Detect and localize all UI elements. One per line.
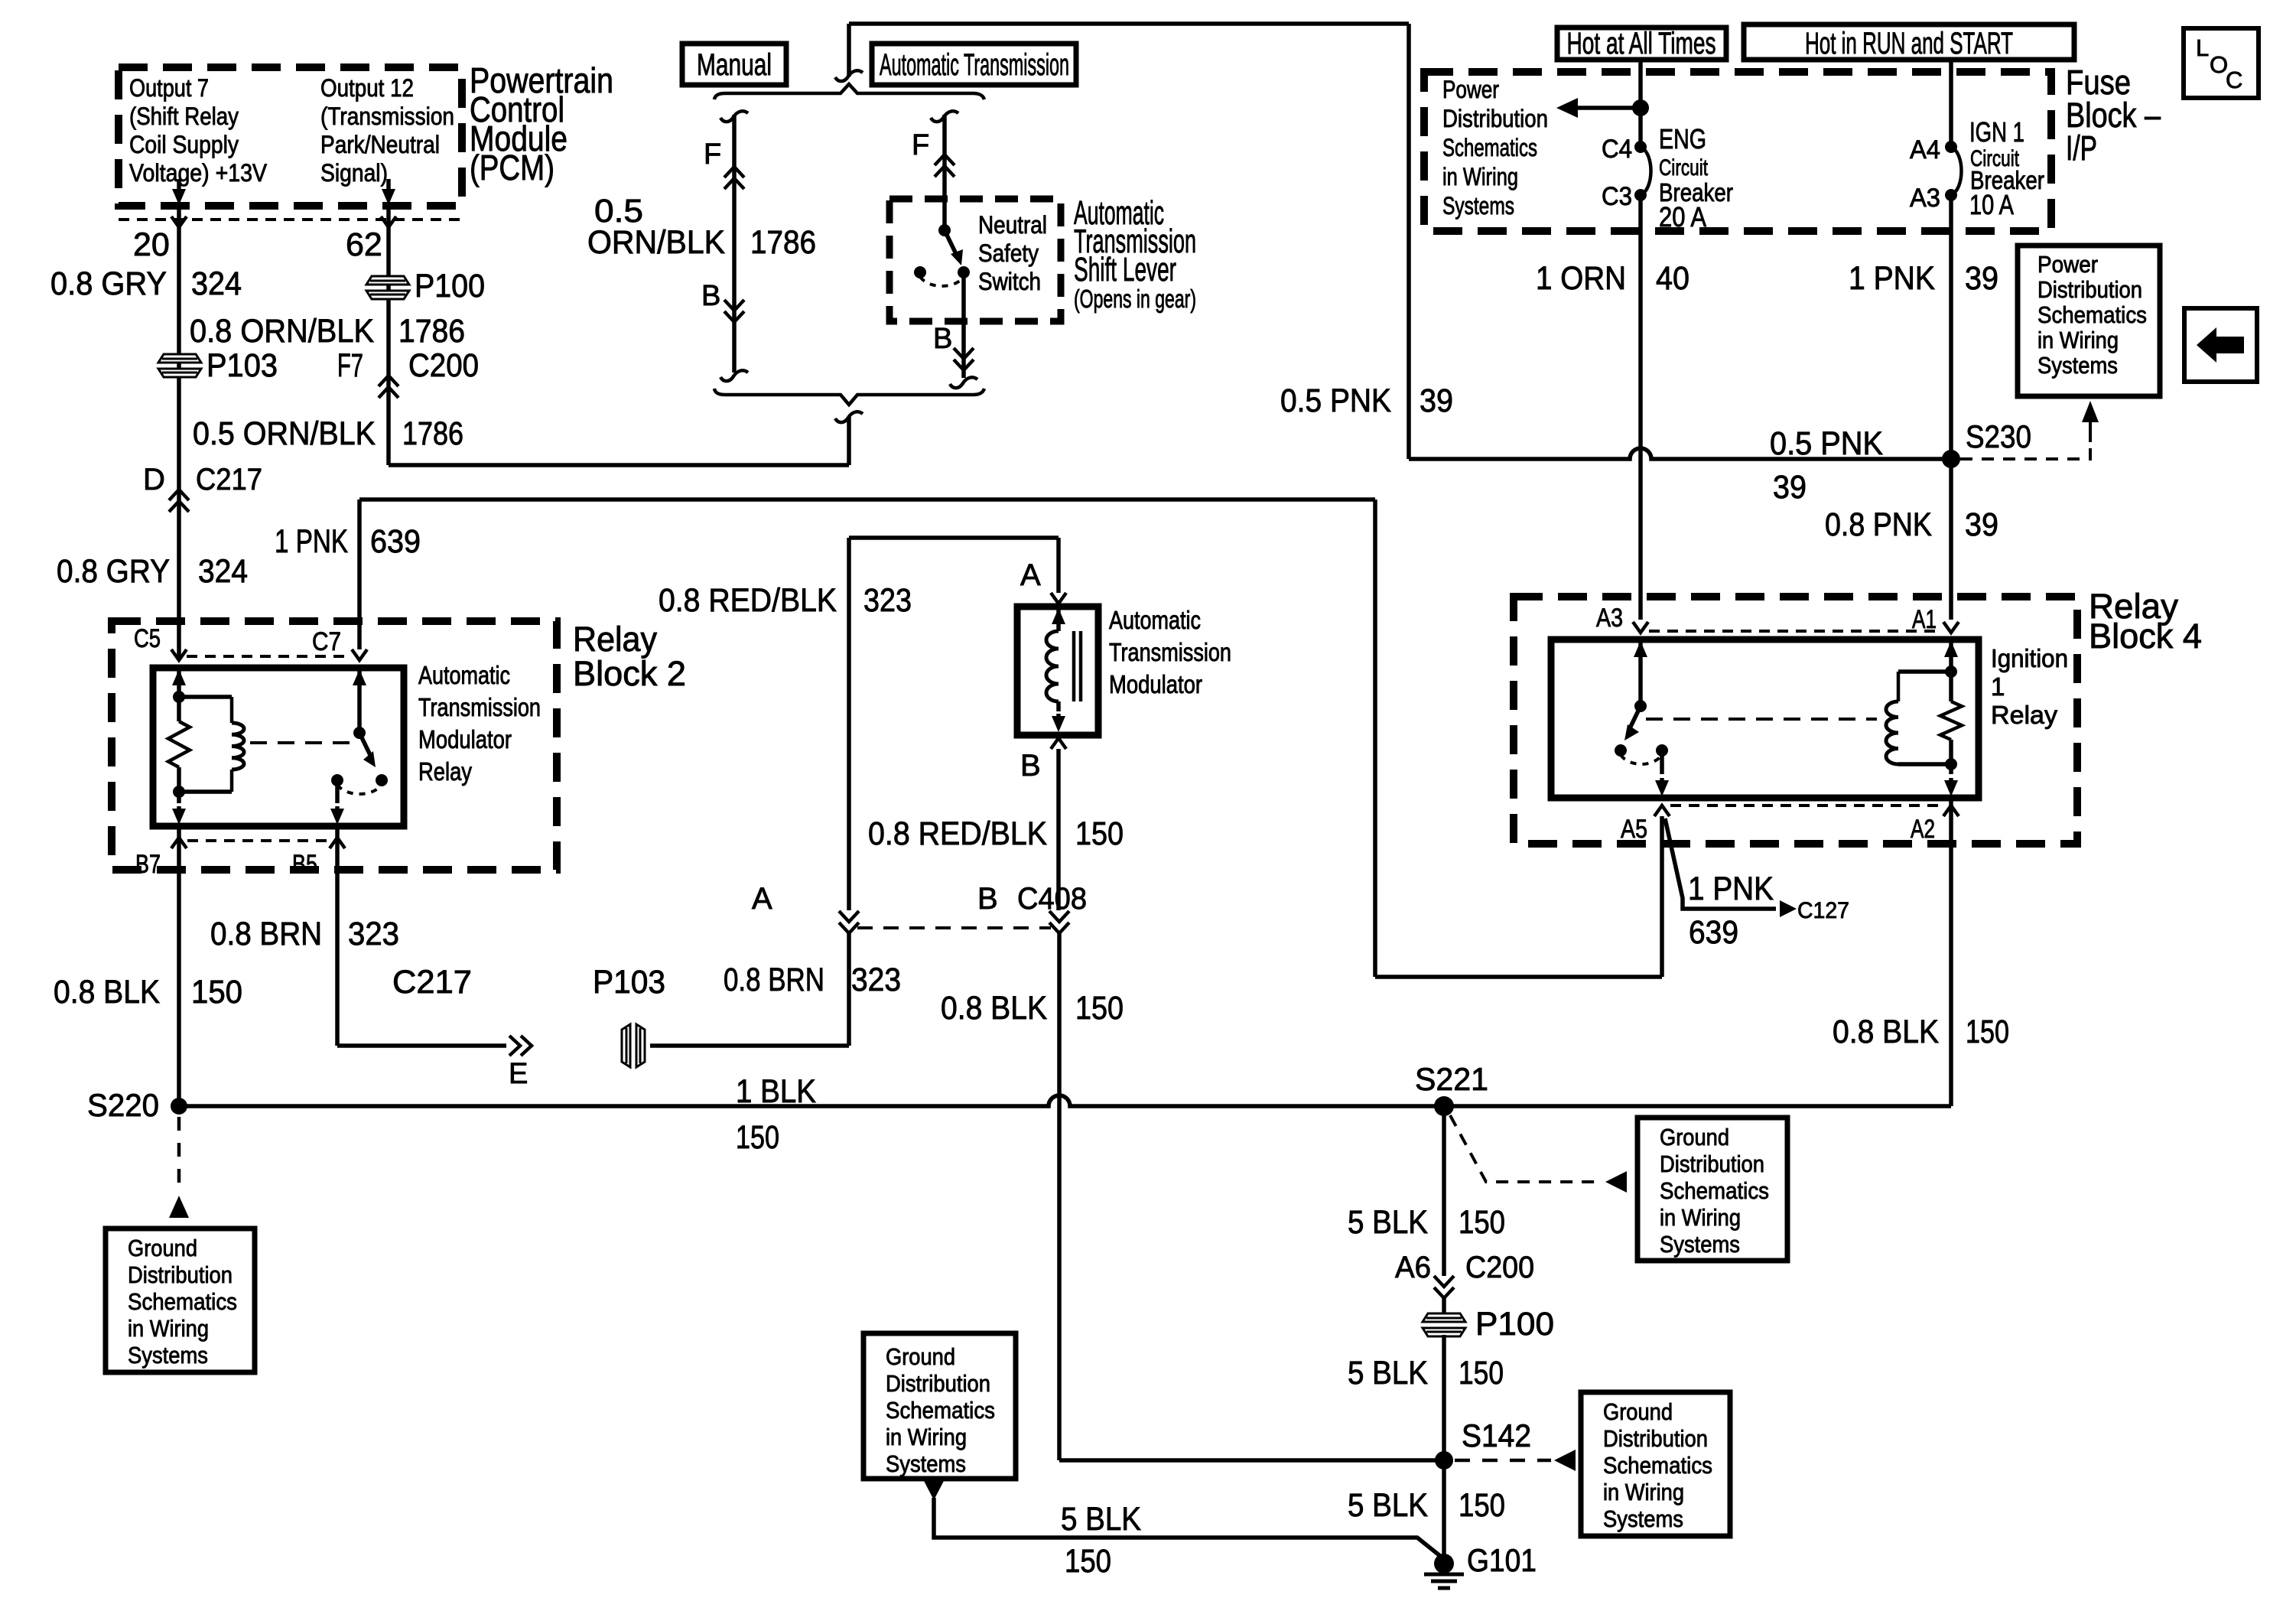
Fuse Block dashed box (1424, 72, 2051, 231)
svg-text:(Shift Relay: (Shift Relay (129, 103, 239, 130)
wire 1 PNK 639 C7 riser (357, 500, 362, 649)
connector C200 pin F7 chevron (379, 376, 398, 398)
svg-text:P103: P103 (207, 347, 278, 384)
splice S221 dot (1434, 1096, 1454, 1116)
relay4 switch right contact dot (1656, 744, 1668, 757)
wire P100 to S142 (1442, 1335, 1446, 1460)
svg-text:S221: S221 (1415, 1061, 1488, 1097)
svg-text:Voltage) +13V: Voltage) +13V (129, 159, 268, 187)
NSS switch blade with arrow (945, 230, 957, 255)
splice S142 dot (1435, 1451, 1453, 1469)
wire 0.5 PNK horizontal to S230 with hop (1409, 448, 1951, 459)
svg-text:C7: C7 (312, 627, 341, 656)
svg-text:C5: C5 (134, 624, 161, 653)
svg-text:Relay: Relay (573, 620, 657, 659)
svg-text:IGN 1: IGN 1 (1969, 116, 2024, 148)
NSS dashed box (889, 199, 1061, 321)
wire 1 PNK 639 bottom horizontal (1375, 975, 1662, 979)
svg-text:S230: S230 (1966, 418, 2031, 454)
relay4 coil (1897, 672, 1901, 701)
Automatic Transmission box (872, 44, 1076, 85)
relay4 pin A1 fork (1943, 622, 1959, 633)
wire 1 PNK 639 up to A5 (1660, 816, 1664, 977)
svg-text:323: 323 (851, 962, 901, 998)
svg-text:39: 39 (1965, 506, 1998, 543)
svg-text:I/P: I/P (2066, 129, 2097, 168)
svg-text:B: B (701, 280, 720, 312)
svg-text:Systems: Systems (1442, 192, 1514, 220)
wire ATM B down to C408 (1056, 749, 1061, 910)
wire B7 to S220 (177, 826, 181, 1106)
svg-text:C: C (2226, 67, 2242, 93)
svg-text:5 BLK: 5 BLK (1348, 1355, 1428, 1391)
svg-text:Schematics: Schematics (1660, 1177, 1769, 1204)
svg-text:Systems: Systems (2037, 352, 2118, 379)
relay2 resistor (168, 721, 190, 767)
relay2 switch left contact dot (331, 774, 343, 786)
Relay Block 4 dashed box (1514, 597, 2077, 844)
svg-text:Distribution: Distribution (128, 1261, 233, 1288)
S230 reference arrow up (2089, 421, 2092, 442)
svg-text:150: 150 (191, 974, 242, 1011)
NSS switch pivot dot (938, 224, 951, 236)
svg-text:1 PNK: 1 PNK (1849, 260, 1935, 297)
LOC box (2184, 28, 2259, 98)
ATM pin A fork (1051, 593, 1066, 604)
NSS switch left contact dot (914, 266, 926, 278)
svg-text:0.5 ORN/BLK: 0.5 ORN/BLK (193, 415, 376, 452)
squiggle top center (847, 24, 851, 76)
svg-text:Schematics: Schematics (886, 1397, 995, 1424)
IGN circuit breaker A3 dot (1945, 189, 1957, 201)
svg-text:0.8 GRY: 0.8 GRY (57, 553, 170, 590)
svg-text:1 PNK: 1 PNK (275, 523, 348, 560)
svg-text:639: 639 (1689, 914, 1738, 951)
relay2 actuator dashed line (250, 741, 353, 744)
wire ORN/BLK horizontal to options brace (389, 463, 849, 467)
connector P100 pellet (366, 276, 409, 299)
svg-text:G101: G101 (1467, 1542, 1537, 1578)
PCM dashed box (119, 67, 462, 206)
manual col F chevron (724, 167, 744, 189)
svg-text:B: B (977, 882, 998, 916)
svg-text:B: B (933, 323, 952, 355)
svg-text:A4: A4 (1910, 135, 1940, 164)
wire ENG breaker vertical upper (1638, 60, 1643, 147)
wire ORN/BLK from PCM pin 62 down (386, 207, 391, 465)
svg-text:Hot in RUN and START: Hot in RUN and START (1805, 27, 2013, 60)
svg-text:A6: A6 (1395, 1251, 1431, 1284)
svg-text:150: 150 (1966, 1014, 2009, 1050)
wire top from options brace to fuse area (849, 21, 1409, 26)
ATM solenoid coil (1046, 631, 1059, 701)
NSS switch dashed arc (920, 277, 964, 286)
svg-text:A1: A1 (1912, 605, 1937, 634)
relay4 pin A3 fork (1633, 622, 1648, 633)
svg-text:5 BLK: 5 BLK (1061, 1501, 1141, 1538)
svg-text:C4: C4 (1602, 135, 1632, 164)
svg-text:Transmission: Transmission (418, 693, 541, 721)
svg-text:1 PNK: 1 PNK (1688, 871, 1774, 907)
C408 pin A chevrons (839, 911, 859, 933)
manual column bottom squiggle (720, 370, 748, 381)
PCM pin 20 fork (171, 216, 187, 227)
PCM pin 62 fork (381, 216, 396, 227)
svg-text:Relay: Relay (1991, 701, 2058, 729)
Automatic Transmission Modulator box (1017, 607, 1098, 735)
svg-text:Distribution: Distribution (886, 1370, 990, 1397)
A5 stub to C127 (1665, 819, 1776, 909)
NSS switch right contact dot (958, 266, 970, 278)
relay2 pin C5 fork (171, 649, 187, 660)
svg-text:Power: Power (1442, 76, 1499, 103)
relay4 coil branch bottom (1898, 762, 1951, 766)
ATM Relay solid box (153, 668, 404, 826)
svg-text:10 A: 10 A (1969, 189, 2014, 220)
svg-text:Output 7: Output 7 (129, 74, 209, 102)
relay2 switch blade (359, 733, 370, 755)
relay4 pin A5 fork (1654, 805, 1670, 816)
wire C408 B down (1057, 933, 1062, 1460)
relay4 bottom pin dashed line (1670, 804, 1942, 807)
relay4 resistor exit wire (1949, 740, 1953, 774)
ATM coil entry arrow (1056, 608, 1061, 617)
svg-text:Systems: Systems (886, 1450, 966, 1477)
svg-text:1 BLK: 1 BLK (736, 1073, 816, 1110)
wire RED/BLK horizontal (849, 535, 1059, 540)
relay2 switch entry arrow (357, 669, 362, 679)
NSS column wire lower (961, 272, 966, 378)
relay4 actuator dashed line (1646, 718, 1877, 721)
svg-text:C3: C3 (1602, 182, 1632, 211)
svg-text:A: A (1020, 558, 1041, 592)
wire C408-B leg to S142 (1059, 1458, 1444, 1463)
svg-text:Switch: Switch (978, 268, 1041, 295)
ENG circuit breaker C3 dot (1634, 189, 1647, 201)
svg-text:0.8 BLK: 0.8 BLK (1833, 1014, 1939, 1050)
svg-text:ORN/BLK: ORN/BLK (587, 224, 725, 261)
svg-text:Automatic Transmission: Automatic Transmission (880, 48, 1069, 82)
svg-text:150: 150 (1075, 815, 1124, 852)
relay4 coil bottom dot (1945, 758, 1957, 770)
connector C200 pin A6 chevron (1434, 1276, 1454, 1298)
svg-text:Neutral: Neutral (978, 211, 1047, 239)
options brace bottom (714, 389, 984, 405)
svg-text:P100: P100 (1475, 1306, 1554, 1342)
S220 dashed reference (177, 1117, 181, 1187)
svg-text:F: F (704, 138, 721, 171)
relay4 resistor entry arrow (1949, 641, 1953, 650)
relay4 switch pivot dot (1634, 700, 1647, 712)
svg-text:B7: B7 (135, 850, 161, 879)
svg-text:Systems: Systems (1603, 1505, 1683, 1532)
manual col B chevron (724, 300, 744, 322)
wire BRN horizontal 2 (650, 1043, 849, 1048)
wire S142 to G101 (1442, 1460, 1446, 1557)
svg-text:0.8 BLK: 0.8 BLK (941, 990, 1047, 1027)
Power Distribution Schematics box right (2018, 246, 2160, 396)
svg-text:Transmission: Transmission (1109, 638, 1231, 666)
Ignition 1 Relay solid box (1551, 640, 1979, 798)
svg-text:Block 4: Block 4 (2089, 617, 2202, 656)
svg-text:Ignition: Ignition (1991, 644, 2068, 672)
wire RED/BLK down to ATM A (1056, 538, 1061, 593)
relay4 coil branch top (1898, 669, 1951, 674)
S220 reference triangle (169, 1196, 189, 1218)
wire C200 to P100 (1442, 1298, 1446, 1315)
svg-text:1786: 1786 (402, 415, 463, 452)
NSS column bottom squiggle (950, 377, 977, 388)
PCM connector dashed pin line (119, 218, 462, 221)
Ground Distribution box S142 (1581, 1392, 1730, 1536)
wire 1 PNK 639 right riser (1373, 500, 1377, 977)
svg-text:S142: S142 (1462, 1417, 1531, 1453)
svg-text:Circuit: Circuit (1659, 155, 1708, 181)
left arrow legend box (2184, 308, 2257, 382)
left arrow legend glyph (2197, 327, 2244, 363)
ENG branch junction dot (1632, 99, 1649, 116)
options brace top (714, 84, 984, 99)
svg-text:Schematics: Schematics (2037, 301, 2147, 328)
S142 dashed reference (1455, 1459, 1551, 1463)
svg-text:Automatic: Automatic (418, 661, 510, 689)
svg-text:Manual: Manual (697, 48, 772, 82)
svg-text:39: 39 (1420, 382, 1453, 419)
svg-text:F7: F7 (337, 347, 363, 384)
relay2 coil bottom dot (173, 786, 185, 798)
svg-text:Block 2: Block 2 (573, 654, 686, 693)
svg-text:in Wiring: in Wiring (886, 1424, 967, 1450)
svg-text:Systems: Systems (1660, 1231, 1740, 1258)
svg-text:ENG: ENG (1659, 123, 1706, 155)
ATM core bars (1072, 631, 1076, 701)
svg-text:Coil Supply: Coil Supply (129, 131, 239, 158)
connector P103 pellet (158, 354, 201, 377)
S221 reference arrow (1605, 1171, 1627, 1193)
svg-text:1: 1 (1991, 672, 2005, 701)
relay2 resistor entry arrow (177, 669, 181, 679)
svg-text:A3: A3 (1596, 604, 1623, 633)
wire bottom box to G101 (934, 1498, 1444, 1559)
svg-text:0.8 PNK: 0.8 PNK (1825, 506, 1932, 543)
svg-text:Hot at All Times: Hot at All Times (1567, 27, 1716, 60)
svg-text:5 BLK: 5 BLK (1348, 1487, 1428, 1524)
svg-text:150: 150 (1459, 1355, 1504, 1391)
svg-text:0.5 PNK: 0.5 PNK (1770, 425, 1883, 462)
relay2 switch exit wire (335, 780, 340, 803)
ATM pin B fork (1051, 738, 1066, 749)
relay4 top pin dashed line (1649, 630, 1942, 633)
svg-text:C217: C217 (196, 463, 262, 496)
wire IGN breaker vertical lower (1949, 195, 1953, 620)
bottom box triangle (924, 1481, 944, 1500)
svg-text:0.8 RED/BLK: 0.8 RED/BLK (868, 815, 1047, 852)
svg-text:0.8 ORN/BLK: 0.8 ORN/BLK (190, 313, 374, 350)
svg-text:(PCM): (PCM) (470, 148, 554, 187)
svg-text:5 BLK: 5 BLK (1348, 1204, 1428, 1241)
svg-text:E: E (509, 1058, 528, 1090)
relay4 switch blade (1630, 706, 1641, 728)
S142 reference arrow (1554, 1450, 1576, 1471)
svg-text:(Transmission: (Transmission (320, 103, 454, 130)
ATM coil exit arrow (1056, 701, 1061, 711)
manual column wire (732, 115, 737, 373)
relay2 switch dashed arc (337, 785, 382, 794)
relay2 coil (230, 697, 234, 723)
wire S221 down to C200 (1442, 1106, 1446, 1276)
svg-text:C200: C200 (408, 347, 479, 384)
svg-text:in Wiring: in Wiring (1603, 1479, 1684, 1505)
Hot at All Times box (1557, 28, 1726, 60)
svg-text:Distribution: Distribution (2037, 276, 2142, 303)
wire BRN riser to C408 A (847, 933, 851, 1046)
svg-text:150: 150 (736, 1119, 779, 1156)
svg-text:Power: Power (2037, 251, 2098, 278)
svg-text:Modulator: Modulator (1109, 670, 1202, 698)
svg-text:20: 20 (133, 226, 170, 263)
svg-text:Ground: Ground (886, 1343, 955, 1370)
Ground Distribution box S221 (1637, 1118, 1787, 1261)
splice S230 dot (1942, 450, 1960, 468)
svg-text:0.8 RED/BLK: 0.8 RED/BLK (659, 582, 837, 619)
relay4 pin A2 fork (1943, 805, 1959, 816)
svg-text:C217: C217 (392, 964, 472, 1001)
wire IGN breaker vertical upper (1949, 60, 1953, 147)
svg-text:150: 150 (1459, 1204, 1505, 1241)
svg-text:0.8 GRY: 0.8 GRY (50, 265, 167, 302)
svg-text:in Wiring: in Wiring (1660, 1204, 1741, 1231)
svg-text:150: 150 (1459, 1487, 1505, 1524)
manual column top squiggle (720, 111, 748, 122)
relay2 pin B5 fork (330, 838, 345, 848)
ENG branch arrow to Power Distribution (1576, 106, 1641, 110)
relay4 switch entry arrow (1638, 641, 1643, 650)
wire 0.5 PNK vertical (1407, 24, 1411, 459)
splice S220 dot (171, 1098, 187, 1115)
svg-text:Schematics: Schematics (1603, 1452, 1712, 1479)
svg-text:0.5 PNK: 0.5 PNK (1280, 382, 1391, 419)
svg-text:39: 39 (1965, 260, 1998, 297)
svg-text:in Wiring: in Wiring (1442, 163, 1518, 190)
svg-text:0.8 BRN: 0.8 BRN (724, 962, 824, 998)
svg-text:62: 62 (346, 226, 382, 263)
svg-text:324: 324 (198, 553, 248, 590)
relay2 coil branch bottom (230, 770, 234, 792)
squiggle bottom center (835, 412, 863, 422)
relay4 switch left contact dot (1615, 744, 1627, 757)
S221 dashed reference (1450, 1115, 1602, 1182)
wire ENG breaker vertical lower (1638, 195, 1643, 620)
relay2 switch pivot dot (353, 727, 366, 739)
svg-text:A5: A5 (1621, 815, 1647, 844)
G101 ground dot (1434, 1554, 1454, 1574)
relay2 switch right contact dot (376, 774, 388, 786)
svg-text:L: L (2196, 34, 2209, 61)
svg-text:F: F (912, 129, 929, 161)
svg-text:in Wiring: in Wiring (128, 1315, 209, 1342)
relay2 coil branch top (179, 695, 232, 699)
svg-text:S220: S220 (87, 1087, 159, 1123)
relay2 pin B7 fork (171, 838, 187, 848)
svg-text:324: 324 (191, 265, 242, 302)
PCM pin 62 output arrow (386, 179, 391, 196)
svg-text:C127: C127 (1797, 898, 1849, 923)
relay4 coil top dot (1945, 666, 1957, 678)
svg-text:1786: 1786 (750, 224, 816, 261)
relay2 resistor exit wire (177, 767, 181, 803)
svg-text:B: B (1020, 749, 1041, 783)
svg-text:Ground: Ground (128, 1235, 197, 1261)
svg-text:A2: A2 (1911, 815, 1935, 844)
wire 1 PNK 639 top horizontal (359, 497, 1375, 502)
svg-text:0.8 BRN: 0.8 BRN (210, 916, 322, 952)
svg-text:639: 639 (370, 523, 421, 560)
svg-text:Ground: Ground (1603, 1398, 1673, 1425)
svg-text:Systems: Systems (128, 1342, 208, 1369)
G101 ground symbol (1424, 1573, 1464, 1577)
ENG circuit breaker C4 dot (1634, 141, 1647, 153)
wire B5 down (335, 826, 340, 1046)
svg-text:150: 150 (1065, 1543, 1111, 1580)
relay2 bottom pin dashed line (187, 839, 329, 842)
svg-text:Modulator: Modulator (418, 725, 512, 753)
C408 dashed line (857, 926, 1051, 929)
svg-text:Schematics: Schematics (128, 1288, 237, 1315)
svg-text:Relay: Relay (418, 757, 472, 786)
S230 dashed reference line (1960, 440, 2090, 459)
C408 pin B chevrons (1049, 911, 1069, 933)
Ground Distribution box S220 (106, 1229, 255, 1372)
connector P100 pellet lower (1423, 1313, 1465, 1336)
svg-text:C200: C200 (1465, 1251, 1534, 1284)
svg-text:Distribution: Distribution (1603, 1425, 1708, 1452)
svg-text:Ground: Ground (1660, 1124, 1729, 1150)
relay4 switch exit wire (1660, 750, 1664, 774)
relay4 switch dashed arc (1621, 755, 1662, 764)
wire BRN horizontal (337, 1043, 506, 1048)
svg-text:P100: P100 (415, 268, 485, 304)
wire 0.8 GRY from PCM pin 20 down to C5 (177, 207, 181, 659)
NSS col B chevrons (954, 348, 974, 370)
svg-text:Output 12: Output 12 (320, 74, 414, 102)
svg-text:in Wiring: in Wiring (2037, 327, 2119, 353)
ENG circuit breaker arc (1641, 147, 1651, 195)
svg-text:40: 40 (1656, 260, 1689, 297)
Ground Distribution box bottom middle (863, 1333, 1016, 1479)
svg-text:Distribution: Distribution (1660, 1150, 1764, 1177)
svg-text:Shift Lever: Shift Lever (1074, 251, 1176, 288)
svg-text:Automatic: Automatic (1109, 606, 1201, 634)
svg-text:B5: B5 (292, 850, 317, 879)
svg-text:1786: 1786 (398, 313, 465, 350)
relay4 resistor (1940, 701, 1962, 740)
wire ground bus S220 to A2 with hop (179, 1095, 1951, 1106)
relay2 top pin dashed line (187, 655, 352, 658)
wire A2 down to ground bus (1949, 798, 1953, 1106)
svg-text:1 ORN: 1 ORN (1536, 260, 1626, 297)
svg-text:P103: P103 (593, 964, 665, 1001)
svg-text:150: 150 (1075, 990, 1124, 1027)
svg-text:Schematics: Schematics (1442, 134, 1537, 161)
relay2 pin C7 fork (352, 649, 367, 660)
svg-text:20 A: 20 A (1659, 201, 1706, 233)
PCM pin 20 output arrow (177, 179, 181, 196)
NSS column wire upper (942, 115, 947, 230)
svg-text:323: 323 (863, 582, 912, 619)
svg-text:Park/Neutral: Park/Neutral (320, 131, 440, 158)
svg-text:(Opens in gear): (Opens in gear) (1074, 285, 1196, 313)
svg-text:323: 323 (348, 916, 399, 952)
